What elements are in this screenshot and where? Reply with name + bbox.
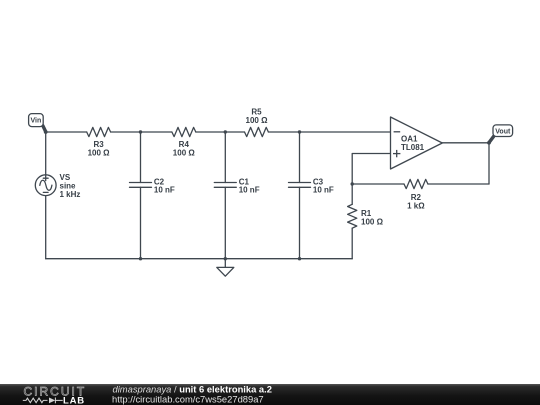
resistor R4 [172,127,196,136]
wire C2 column bottom [140,187,142,258]
junction Vin node [44,130,48,134]
label R3 100Ω [88,140,111,157]
logo diode triangle [49,398,55,404]
ground [217,267,234,276]
wire Vin node to R3 left [46,131,87,133]
logo resistor-diode glyph [23,398,63,404]
op-amp non-inverting pin mark [393,150,400,157]
svg-text:TL081: TL081 [401,143,425,152]
label C1 10nF [239,177,260,194]
svg-text:10 nF: 10 nF [239,186,260,195]
wire C3 column bottom [299,187,301,258]
op-amp U1 triangle [391,117,443,169]
capacitor C1 [214,183,236,188]
resistor R1 [348,204,357,228]
label R5 100Ω [246,108,269,126]
wire VS bottom to ground rail [45,196,47,259]
junction C3 / top wire [298,130,301,133]
resistor R2 [404,179,428,188]
capacitor C2 [130,183,152,188]
svg-text:1 kΩ: 1 kΩ [407,201,425,210]
voltage source VS [35,175,56,196]
svg-text:10 nF: 10 nF [313,186,334,195]
svg-text:100 Ω: 100 Ω [246,116,269,125]
label R4 100Ω [173,140,196,157]
resistor R3 [87,127,111,136]
op-amp inverting pin mark [394,131,401,133]
svg-text:Vout: Vout [495,128,511,135]
resistor R5 [245,127,269,136]
svg-text:100 Ω: 100 Ω [361,217,384,226]
svg-text:10 nF: 10 nF [154,186,175,195]
svg-text:Vin: Vin [31,118,42,125]
wire R3 to R4 [111,131,172,133]
capacitor C3 [289,183,311,188]
svg-text:100 Ω: 100 Ω [173,148,196,157]
wire R2 right to feedback corner [428,183,489,185]
label R2 1kΩ [407,193,425,210]
label C2 10nF [154,177,175,194]
wire C1 column top [224,132,226,183]
node flag Vout [489,125,512,142]
wire op-amp non-inverting input [352,154,390,185]
junction C1 / top wire [224,130,227,133]
wire op-amp output [442,142,489,144]
wire R5 to op-amp inverting input [268,131,390,133]
wire R1 bottom to rail [351,228,353,259]
junction C2 / top wire [139,130,142,133]
wire R4 to R5 [196,131,245,133]
svg-text:LAB: LAB [63,395,85,405]
junction R1 / R2 / op-amp + [351,182,354,185]
label VS sine 1 kHz [60,173,81,199]
junction C3 / rail [298,257,301,260]
wire feedback vertical to output node [488,143,490,184]
junction C1 / ground / rail [224,257,227,260]
wire C2 column top [140,132,142,183]
label R1 100Ω [361,209,384,227]
label C3 10nF [313,177,334,194]
svg-text:http://circuitlab.com/c7ws5e27: http://circuitlab.com/c7ws5e27d89a7 [112,394,264,405]
svg-text:1 kHz: 1 kHz [60,190,81,199]
wire C3 column top [299,132,301,183]
wire R1 top lead [351,184,353,204]
wire ground stub [224,259,226,268]
junction C2 / rail [139,257,142,260]
label OA1 TL081 [401,134,425,152]
wire bottom rail [46,258,353,260]
wire C1 column bottom [224,187,226,258]
node flag Vin [29,114,46,132]
wire R1 node to R2 left [352,183,404,185]
junction output node [487,141,491,145]
svg-text:100 Ω: 100 Ω [88,148,111,157]
wire Vin node down to VS top [45,132,47,175]
